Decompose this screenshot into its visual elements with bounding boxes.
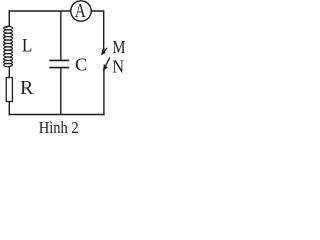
svg-text:L: L bbox=[22, 36, 33, 56]
svg-text:C: C bbox=[75, 55, 87, 75]
svg-text:Hình 2: Hình 2 bbox=[39, 118, 79, 137]
svg-text:A: A bbox=[75, 0, 86, 22]
svg-text:M: M bbox=[113, 37, 126, 57]
svg-text:N: N bbox=[112, 57, 124, 77]
svg-text:R: R bbox=[20, 77, 34, 99]
